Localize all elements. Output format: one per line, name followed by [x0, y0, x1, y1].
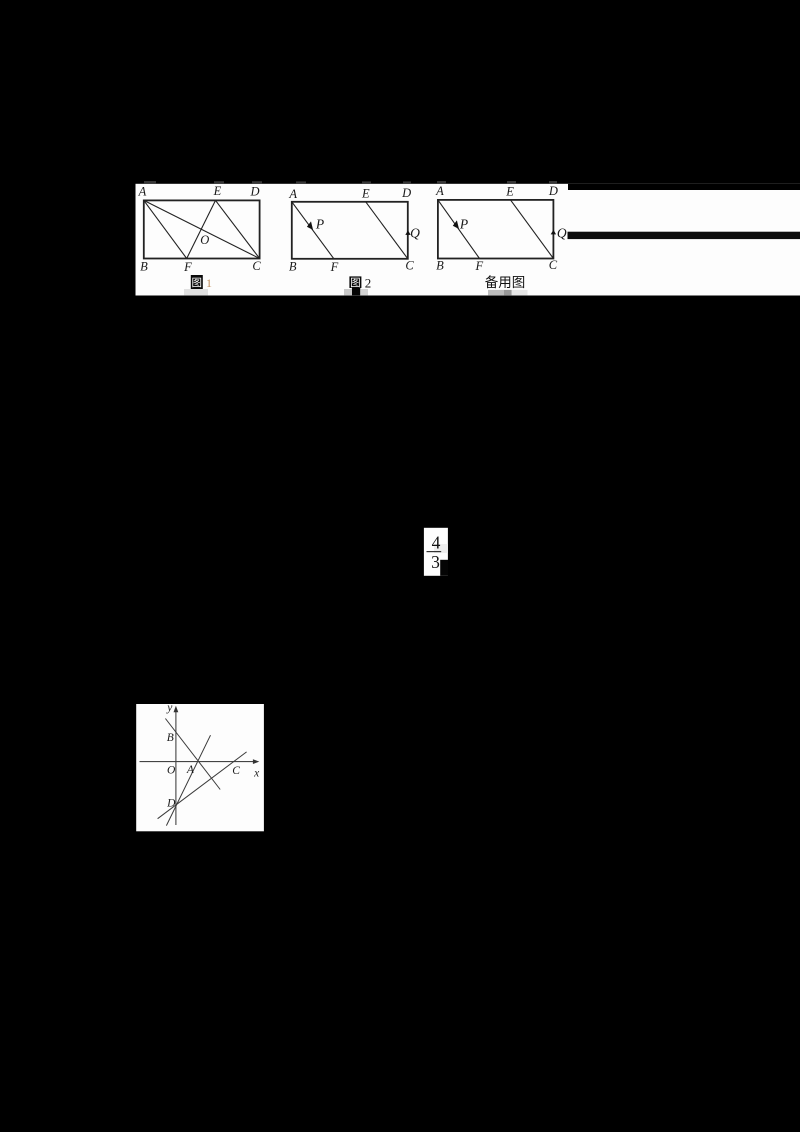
rectangle ABCD fig1 — [144, 200, 260, 258]
svg-text:E: E — [505, 185, 514, 199]
svg-text:E: E — [213, 184, 222, 198]
line through D and A — [166, 735, 210, 825]
svg-text:C: C — [232, 765, 240, 777]
y axis arrowhead — [174, 706, 179, 712]
arrow P fig2 — [307, 221, 313, 230]
svg-text:1: 1 — [206, 276, 212, 290]
svg-text:B: B — [436, 259, 444, 273]
arrow P fig3 — [453, 220, 459, 229]
svg-text:B: B — [140, 260, 148, 274]
svg-text:E: E — [361, 187, 370, 201]
x axis — [140, 761, 257, 763]
caption 图2 — [349, 276, 361, 288]
svg-text:P: P — [459, 216, 468, 231]
line A-F fig3 — [438, 200, 480, 259]
labels fig3 — [435, 184, 567, 273]
line E-C fig3 — [511, 200, 554, 259]
svg-text:图: 图 — [192, 277, 203, 289]
svg-text:备用图: 备用图 — [485, 274, 526, 290]
svg-text:x: x — [253, 768, 260, 780]
caption 图1 — [191, 275, 203, 289]
svg-text:B: B — [289, 260, 297, 274]
black blob bottom-right — [440, 560, 448, 576]
svg-text:F: F — [330, 260, 339, 274]
arrow Q fig3 — [551, 230, 556, 235]
labels fig2 — [288, 186, 420, 274]
y axis — [175, 709, 177, 825]
svg-text:图: 图 — [350, 277, 361, 289]
black strip top-right of band — [568, 184, 800, 190]
svg-text:Q: Q — [557, 226, 567, 241]
svg-text:D: D — [401, 186, 411, 200]
line E-F fig1 — [187, 200, 216, 258]
white patch — [136, 704, 264, 831]
svg-text:D: D — [548, 184, 558, 198]
jpeg ghost marks above band — [144, 181, 557, 184]
svg-text:A: A — [435, 184, 444, 198]
svg-text:4: 4 — [432, 532, 441, 552]
svg-text:O: O — [200, 233, 209, 247]
arrow Q fig2 — [405, 230, 410, 235]
white patch — [424, 528, 448, 576]
line through D and C — [158, 752, 247, 819]
svg-text:Q: Q — [410, 226, 420, 241]
svg-text:F: F — [474, 259, 483, 273]
svg-text:y: y — [166, 702, 173, 714]
rectangle ABCD fig2 — [292, 202, 408, 259]
svg-text:D: D — [249, 185, 259, 199]
line A-C fig1 — [144, 200, 260, 258]
svg-text:O: O — [167, 764, 176, 776]
graph labels — [166, 702, 260, 810]
line A-F fig2 — [292, 202, 334, 259]
svg-text:B: B — [167, 732, 174, 744]
svg-text:C: C — [252, 259, 261, 273]
svg-text:F: F — [183, 260, 192, 274]
white figure band — [136, 184, 800, 296]
x axis arrowhead — [253, 759, 259, 764]
rectangle ABCD fig3 — [438, 200, 554, 259]
line E-C fig2 — [366, 202, 408, 259]
black bar right of Q (figure 3) — [568, 232, 800, 239]
svg-text:A: A — [288, 187, 297, 201]
svg-text:C: C — [549, 258, 558, 272]
svg-text:D: D — [166, 798, 176, 810]
svg-text:A: A — [138, 185, 147, 199]
line through B and A — [165, 719, 220, 790]
svg-text:2: 2 — [365, 276, 372, 291]
fraction bar — [427, 551, 442, 553]
line E-C fig1 — [216, 200, 260, 258]
svg-text:C: C — [405, 259, 414, 273]
svg-text:P: P — [315, 217, 324, 232]
svg-text:A: A — [186, 764, 195, 776]
svg-text:3: 3 — [431, 552, 440, 572]
line A-F fig1 — [144, 200, 187, 258]
labels fig1 — [138, 184, 262, 274]
